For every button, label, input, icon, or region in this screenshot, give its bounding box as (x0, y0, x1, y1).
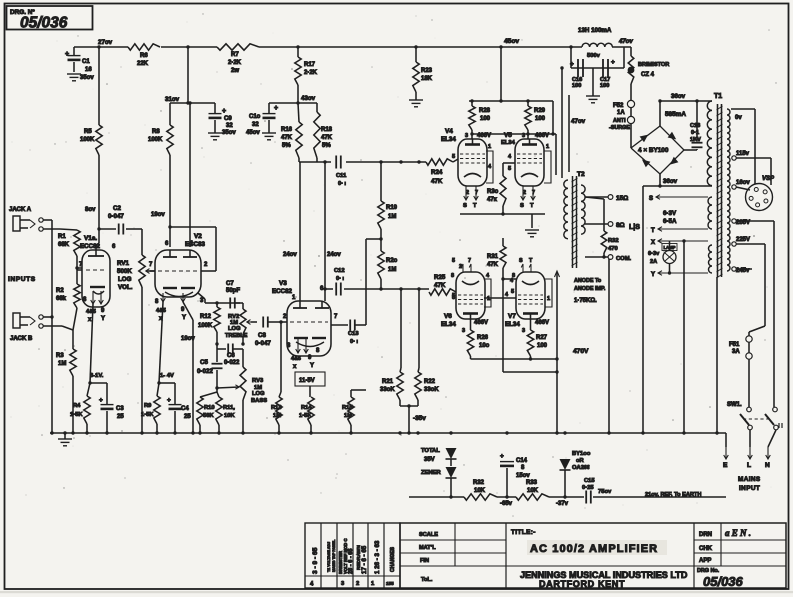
wire output cathode bus (460, 186, 545, 228)
svg-text:L: L (747, 462, 751, 469)
svg-text:3: 3 (462, 328, 465, 334)
svg-text:115v: 115v (736, 151, 750, 157)
resistor R7 (217, 44, 259, 74)
resistor R27 (527, 319, 547, 359)
svg-text:R4: R4 (73, 403, 81, 409)
svg-text:1: 1 (487, 296, 490, 302)
svg-text:16ov: 16ov (736, 180, 750, 186)
potentiometer RV3 (240, 349, 267, 433)
svg-text:8ov: 8ov (85, 207, 96, 213)
wire V1 cathode to bias network (88, 304, 107, 385)
capacitor C4 (167, 383, 191, 433)
svg-text:R3: R3 (56, 353, 64, 359)
svg-text:2·2K: 2·2K (228, 60, 242, 66)
svg-text:V6: V6 (444, 313, 452, 320)
svg-text:47K: 47K (281, 135, 293, 141)
resistor R17 (295, 47, 318, 85)
resistor R6 (128, 44, 160, 67)
svg-text:466V: 466V (477, 133, 491, 139)
svg-text:R10: R10 (204, 405, 215, 411)
wire V2 cathode to bias network (157, 302, 175, 385)
svg-text:585mA: 585mA (665, 111, 686, 118)
svg-text:-37v: -37v (556, 501, 569, 507)
svg-text:205V: 205V (736, 220, 750, 226)
wire T1 225v tap (732, 237, 765, 326)
svg-text:1: 1 (547, 296, 550, 302)
wire heater drop (682, 239, 685, 433)
svg-text:19ov: 19ov (151, 212, 165, 218)
wire screen supply (469, 47, 553, 103)
potentiometer RV1 (117, 229, 155, 433)
ground (409, 92, 423, 107)
svg-text:S: S (463, 203, 467, 209)
svg-text:5: 5 (452, 293, 455, 299)
svg-text:47K: 47K (434, 282, 446, 289)
svg-text:C13: C13 (348, 331, 359, 337)
wire bass wiper (215, 385, 239, 390)
capacitor C6 (215, 342, 244, 366)
wire V1 anode feed (96, 155, 99, 250)
svg-text:+: + (167, 397, 171, 404)
wire V1 grid node (75, 256, 82, 284)
wire V2 second anode feed (188, 101, 191, 247)
valve V1a ECC82 (77, 235, 116, 323)
wire anode link lower (555, 175, 557, 266)
wire bridge AC top 360v (658, 99, 712, 126)
resistor R26 (467, 319, 489, 359)
wire anode rail to T2 (470, 101, 556, 175)
svg-text:INPUT: INPUT (739, 485, 760, 492)
svg-text:C1: C1 (82, 59, 90, 65)
svg-text:3 - 9 - 65: 3 - 9 - 65 (312, 547, 319, 574)
svg-text:R14: R14 (301, 405, 312, 411)
svg-text:R32: R32 (473, 480, 485, 486)
svg-text:43ov: 43ov (301, 95, 316, 102)
svg-text:16: 16 (85, 67, 92, 73)
svg-text:1·75KΩ.: 1·75KΩ. (574, 298, 597, 304)
label jennings musical industries (520, 570, 688, 589)
svg-text:45ov: 45ov (504, 38, 519, 45)
svg-text:SCALE: SCALE (419, 532, 438, 538)
resistor R32 10K bias (464, 480, 497, 500)
svg-text:4: 4 (505, 292, 508, 298)
revision entry 2 (356, 545, 368, 587)
svg-text:68K: 68K (58, 242, 70, 248)
svg-text:R21: R21 (382, 379, 394, 385)
ground (525, 229, 539, 231)
svg-text:28 - 6 - 65: 28 - 6 - 65 (348, 549, 354, 575)
svg-text:466V: 466V (474, 320, 488, 326)
svg-text:100: 100 (572, 83, 581, 89)
svg-text:466V: 466V (535, 133, 549, 139)
svg-text:T: T (651, 228, 655, 234)
svg-text:R19: R19 (386, 205, 398, 211)
svg-text:ECC82: ECC82 (272, 288, 293, 295)
svg-text:0·1: 0·1 (691, 130, 699, 136)
wire transformer frame drop (716, 277, 718, 433)
capacitor C9 (209, 103, 237, 136)
capacitor C11 (336, 156, 347, 188)
svg-text:1M: 1M (388, 267, 396, 273)
resistor R30 (487, 163, 506, 214)
valve V7 EL34 (505, 258, 552, 334)
ground (586, 68, 600, 103)
capacitor C14 (500, 433, 530, 499)
svg-text:35ov: 35ov (80, 75, 94, 81)
svg-text:R9: R9 (144, 403, 152, 409)
svg-text:MAINS: MAINS (738, 476, 761, 483)
resistor R8 (148, 103, 173, 155)
svg-text:INPUTS: INPUTS (8, 276, 36, 283)
wire lower cathode bus (471, 357, 558, 372)
svg-text:Y: Y (182, 315, 186, 321)
label drg no 05/036 (697, 568, 744, 589)
svg-text:47K: 47K (431, 178, 443, 185)
svg-text:F52: F52 (613, 103, 624, 109)
svg-text:0·022: 0·022 (224, 360, 240, 366)
svg-text:+: + (99, 397, 103, 404)
capacitor C12 (334, 268, 345, 296)
valve V3 ECC82 (272, 280, 348, 370)
svg-text:3: 3 (465, 133, 468, 139)
svg-text:17 - 6 - 65: 17 - 6 - 65 (361, 545, 368, 574)
wire R2 to jack B (73, 308, 77, 330)
svg-text:R29: R29 (534, 108, 546, 114)
svg-text:+: + (500, 453, 504, 460)
svg-text:35V: 35V (424, 457, 435, 463)
svg-text:EL34: EL34 (505, 321, 520, 328)
resistor R21 (380, 162, 403, 406)
wire V3 anode feeds 240v (283, 160, 341, 301)
svg-text:36ov: 36ov (663, 178, 678, 185)
svg-text:24ov: 24ov (327, 252, 341, 258)
svg-text:R18: R18 (321, 127, 333, 133)
svg-text:BY1oo: BY1oo (572, 451, 591, 457)
svg-text:2: 2 (356, 581, 359, 587)
svg-text:33oK: 33oK (380, 387, 395, 393)
resistor R1 (58, 230, 80, 256)
svg-text:6·3V: 6·3V (663, 210, 677, 217)
svg-text:R5: R5 (84, 129, 92, 135)
svg-text:15Ω: 15Ω (616, 195, 628, 202)
resistor R10 (197, 388, 217, 433)
wire reservoir branch (569, 45, 624, 68)
svg-text:4 × BY100: 4 × BY100 (638, 147, 669, 154)
capacitor C15 (582, 478, 612, 504)
svg-text:25: 25 (184, 414, 191, 420)
wire T2 common tap (585, 197, 632, 262)
svg-text:MAINS TAP PANEL: MAINS TAP PANEL (332, 539, 336, 572)
svg-text:500K: 500K (117, 268, 132, 275)
scan edge line (0, 591, 793, 593)
svg-text:-35v: -35v (413, 415, 426, 422)
svg-text:11·5V: 11·5V (299, 378, 315, 384)
svg-text:C1o: C1o (249, 114, 261, 120)
wire T1 205v tap (732, 219, 774, 407)
svg-text:0·047: 0·047 (255, 340, 271, 347)
svg-text:+: + (222, 108, 226, 115)
svg-text:EL34: EL34 (501, 140, 516, 146)
transformer T1 (707, 93, 730, 278)
capacitor C2 (97, 205, 142, 235)
svg-text:C3: C3 (116, 406, 124, 412)
svg-text:10K: 10K (527, 488, 539, 494)
svg-text:oR: oR (576, 458, 585, 464)
label drn (699, 528, 751, 538)
wire V2 anode to tone network (205, 284, 240, 305)
svg-text:5%: 5% (282, 143, 291, 149)
label 6.3V 6.5A (663, 210, 677, 225)
svg-text:R31: R31 (487, 254, 499, 260)
svg-text:Y: Y (651, 272, 655, 278)
resistor R13 (271, 320, 283, 433)
wire V6 V7 grid link (484, 292, 516, 298)
svg-text:1M: 1M (273, 413, 281, 419)
svg-text:TOTAL: TOTAL (421, 448, 440, 454)
choke 13H 100mA (578, 27, 631, 47)
svg-text:COM.: COM. (616, 256, 632, 262)
svg-text:DARTFORD KENT: DARTFORD KENT (539, 579, 625, 589)
svg-text:7: 7 (468, 258, 471, 264)
svg-text:X: X (651, 240, 655, 246)
svg-text:V7: V7 (508, 313, 516, 320)
svg-text:SW1.: SW1. (727, 402, 742, 408)
capacitor C3 (99, 383, 124, 433)
svg-text:OA2ℓℓ: OA2ℓℓ (572, 465, 590, 471)
svg-text:EL34: EL34 (441, 321, 456, 328)
svg-text:5: 5 (452, 154, 455, 160)
label mains input (738, 476, 761, 492)
svg-text:C14: C14 (516, 458, 528, 464)
svg-text:-SURGE: -SURGE (609, 125, 630, 131)
svg-text:R6: R6 (140, 53, 148, 59)
svg-text:R2: R2 (56, 288, 64, 294)
svg-text:27ov: 27ov (98, 39, 113, 46)
svg-text:L|S: L|S (629, 224, 640, 231)
svg-text:VSP: VSP (762, 176, 775, 182)
svg-text:R33: R33 (526, 480, 538, 486)
fuse F52 (609, 100, 635, 148)
wire heater tap T (651, 227, 708, 234)
wire top HT rail (74, 45, 582, 48)
svg-text:0· ı: 0· ı (336, 276, 344, 282)
svg-text:0· ı: 0· ı (338, 181, 346, 187)
svg-text:LOG: LOG (228, 326, 241, 332)
svg-text:1 26 - 3 - 63: 1 26 - 3 - 63 (374, 540, 381, 574)
svg-text:ECC82: ECC82 (80, 243, 101, 250)
svg-text:T1 VOLTAGE ADJ: T1 VOLTAGE ADJ (327, 542, 331, 572)
wire neutral lead N (765, 430, 776, 469)
svg-text:10K: 10K (224, 413, 235, 419)
resistor R14 (299, 397, 314, 433)
svg-text:LOG: LOG (118, 276, 132, 283)
revision entry iss (386, 546, 396, 586)
svg-text:470V: 470V (573, 348, 589, 355)
svg-text:C15: C15 (584, 478, 595, 484)
wire T1 160v tap (732, 180, 751, 190)
svg-text:1M: 1M (58, 361, 66, 367)
resistor R20 (378, 229, 398, 289)
svg-text:32: 32 (226, 123, 233, 129)
zener diodes total 35V (421, 433, 457, 499)
svg-text:R32: R32 (608, 238, 619, 244)
svg-text:-65v: -65v (500, 501, 513, 507)
potentiometer RV2 (225, 303, 257, 344)
wire 310v branch (170, 47, 215, 105)
svg-text:ANODE To: ANODE To (574, 278, 602, 284)
svg-text:3A: 3A (732, 349, 740, 355)
svg-text:V1a.: V1a. (84, 235, 97, 242)
svg-text:FIN: FIN (420, 558, 429, 564)
wire heater tap X (651, 239, 708, 246)
title block (400, 523, 786, 588)
resistor R16 (281, 103, 302, 158)
wire speaker common drop (608, 259, 610, 433)
revision entry 3 (327, 538, 354, 587)
svg-text:3-1V.: 3-1V. (90, 373, 104, 379)
svg-text:+: + (611, 59, 615, 66)
wire bias rail (409, 433, 726, 497)
voltage selector VSP (746, 176, 776, 211)
resistor R23 (413, 47, 433, 92)
resistor R5 (80, 125, 102, 155)
capacitor C1 (65, 47, 94, 81)
svg-text:R25: R25 (434, 274, 446, 281)
svg-text:47κ: 47κ (487, 197, 498, 203)
resistor R32 470 (601, 199, 618, 257)
wire T1 245v tap (732, 267, 752, 274)
svg-text:47K: 47K (487, 262, 499, 268)
svg-text:R13: R13 (271, 405, 282, 411)
wire T1 115v tap (732, 151, 771, 185)
svg-text:155: 155 (386, 581, 394, 586)
svg-text:TITLE:-: TITLE:- (511, 529, 536, 536)
svg-text:CZ 4: CZ 4 (641, 72, 655, 78)
svg-text:100K: 100K (80, 137, 95, 143)
svg-text:8Ω: 8Ω (616, 222, 625, 229)
svg-text:225V: 225V (736, 237, 750, 243)
svg-text:APP: APP (699, 558, 711, 564)
wire V2 cathode 9 drop (183, 302, 193, 433)
svg-text:2w: 2w (231, 68, 239, 74)
svg-text:JACK A: JACK A (9, 207, 32, 213)
svg-text:1·5K: 1·5K (70, 412, 83, 418)
svg-text:33oK: 33oK (424, 387, 439, 393)
diode BY100 or OA211 (560, 433, 591, 499)
svg-text:R12: R12 (200, 314, 212, 320)
svg-text:V3: V3 (279, 280, 287, 287)
svg-text:47K: 47K (321, 135, 333, 141)
wire phase splitter input line (299, 158, 426, 164)
wire V2 anode feed (169, 155, 171, 247)
svg-text:T: T (473, 203, 477, 209)
resistor R18 (314, 112, 333, 158)
svg-text:V2: V2 (194, 233, 202, 240)
svg-text:C4: C4 (181, 406, 189, 412)
svg-text:R3o: R3o (487, 189, 499, 195)
wire heater tap S (649, 195, 708, 202)
svg-text:R17: R17 (304, 62, 316, 68)
wire HV secondary left (560, 66, 585, 178)
svg-text:ToL.: ToL. (421, 577, 433, 583)
capacitor C5 (197, 344, 223, 388)
resistor R15 (342, 325, 366, 433)
svg-text:35ov: 35ov (222, 130, 236, 136)
svg-text:500v: 500v (587, 53, 601, 59)
svg-text:50pF: 50pF (226, 288, 240, 294)
valve V5 EL34 (501, 132, 551, 209)
wire T2 8 ohm tap (585, 222, 640, 231)
svg-text:1- 4V: 1- 4V (160, 373, 174, 379)
wire live lead L (747, 430, 752, 469)
svg-text:0v: 0v (735, 115, 742, 121)
svg-text:31ov: 31ov (165, 96, 180, 103)
jack A (9, 207, 77, 231)
svg-text:C9: C9 (224, 116, 232, 122)
svg-text:1KV: 1KV (690, 137, 701, 143)
capacitor C18 (684, 99, 703, 150)
svg-text:VOL.: VOL. (118, 284, 133, 291)
svg-text:05/036: 05/036 (20, 15, 68, 32)
svg-text:R22: R22 (424, 379, 436, 385)
svg-text:3: 3 (522, 133, 525, 139)
svg-text:C5: C5 (200, 359, 208, 366)
svg-text:0·022: 0·022 (197, 368, 213, 375)
svg-text:R1: R1 (58, 234, 66, 240)
svg-text:ANODE IMP.: ANODE IMP. (574, 286, 606, 292)
svg-text:R7: R7 (231, 52, 239, 58)
switch SW1 (727, 402, 782, 430)
svg-text:36ov: 36ov (671, 93, 686, 100)
label anode to anode impedance (574, 278, 606, 304)
svg-text:EL34: EL34 (441, 136, 456, 143)
wire earth lead E (723, 433, 728, 469)
resistor R29 (525, 101, 546, 139)
wire lamp feed (669, 241, 671, 251)
svg-text:45ov: 45ov (246, 130, 260, 136)
resistor R19 (378, 162, 398, 229)
wire driver output line (323, 287, 429, 290)
capacitor C16 (570, 59, 583, 89)
wire T1 0v tap (731, 109, 755, 184)
svg-text:Y: Y (101, 316, 105, 322)
svg-text:F51: F51 (729, 342, 740, 348)
valve V2 ECC83 (148, 225, 216, 342)
wire R5 branch (98, 47, 100, 125)
capacitor C13 (348, 320, 366, 346)
svg-text:100K: 100K (198, 323, 213, 329)
svg-text:2·2K: 2·2K (304, 70, 318, 76)
resistor R25 (429, 274, 456, 301)
svg-text:+: + (65, 51, 69, 58)
svg-text:05/036: 05/036 (703, 574, 744, 589)
jack B (10, 313, 73, 342)
svg-text:C12: C12 (334, 268, 345, 274)
capacitor C17 (600, 59, 615, 89)
svg-text:T2: T2 (577, 171, 585, 178)
svg-text:68k: 68k (56, 296, 67, 302)
title AC 100/2 amplifier (527, 540, 667, 555)
svg-text:56K: 56K (203, 413, 214, 419)
svg-text:6·5A: 6·5A (663, 218, 677, 225)
wire T2 15 ohm tap (585, 195, 628, 202)
svg-text:21ov. REF. To EARTH: 21ov. REF. To EARTH (645, 492, 701, 498)
brimistor CZ4 (628, 47, 670, 100)
resistor R22 (415, 162, 440, 406)
svg-text:470: 470 (608, 246, 618, 252)
revision entry 4 (310, 547, 319, 587)
svg-text:BASS: BASS (251, 398, 267, 404)
